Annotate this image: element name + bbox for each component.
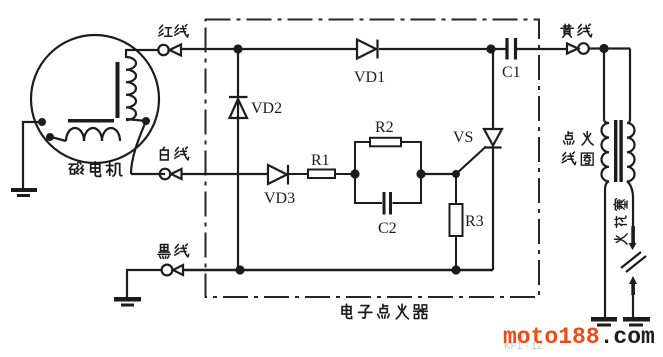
gate wire to VS — [456, 147, 486, 175]
wire node down to white line — [131, 121, 146, 174]
wire node to gate junction — [421, 173, 456, 175]
thyristor VS — [484, 49, 502, 270]
wire white line — [131, 173, 268, 175]
svg-text:C1: C1 — [502, 64, 521, 81]
node top wire / VD2 — [233, 44, 242, 53]
magneto trigger coil bar (horizontal) — [68, 119, 114, 123]
ground (spark plug) — [623, 317, 650, 327]
connector 黑线 — [162, 265, 183, 276]
svg-text:moto188: moto188 — [503, 324, 600, 350]
node R3 bottom — [451, 265, 460, 274]
node VD2 bottom — [235, 265, 244, 274]
ignition coil primary — [602, 49, 610, 318]
svg-text:R1: R1 — [311, 152, 330, 169]
spark plug lower electrode — [629, 276, 637, 295]
wire black line left to ground — [127, 270, 162, 297]
label 红线 — [159, 25, 188, 37]
capacitor C1 — [507, 38, 567, 60]
wire lower electrode to ground — [632, 295, 634, 317]
svg-text:.com: .com — [600, 324, 655, 350]
magneto trigger coil — [66, 128, 120, 141]
wire trigger coil left end — [51, 137, 66, 141]
wire red line to box — [181, 48, 356, 50]
wire magneto to ground — [23, 122, 42, 188]
node primary top — [599, 44, 608, 53]
resistor R2 — [355, 138, 421, 174]
wire yellow line to coil — [589, 47, 630, 49]
node R2C2 right — [416, 169, 425, 178]
ground (ignition coil) — [591, 317, 617, 327]
svg-text:R2: R2 — [375, 119, 394, 136]
wire VD1 to C1 — [379, 48, 507, 50]
node VS anode — [486, 44, 495, 53]
resistor R3 — [450, 174, 463, 270]
resistor R1 — [288, 170, 355, 179]
capacitor C2 — [355, 174, 421, 215]
node R2C2 left — [350, 169, 359, 178]
svg-text:C2: C2 — [378, 220, 397, 237]
diode VD1 — [357, 40, 378, 59]
ignition coil core — [614, 120, 623, 182]
label 白线 — [160, 147, 188, 160]
diode VD2 — [229, 97, 248, 118]
connector 红线 — [158, 45, 181, 56]
node gate / R3 — [452, 170, 460, 178]
label 黄线 — [561, 24, 592, 37]
magneto core bar (vertical) — [116, 62, 120, 118]
label 电子点火器 — [342, 304, 427, 319]
connector 黄线 — [567, 43, 589, 54]
label 黑线 — [158, 244, 189, 258]
spark gap mark — [621, 252, 646, 272]
svg-text:VD2: VD2 — [251, 100, 282, 117]
wire VD2 vertical — [237, 49, 239, 270]
diode VD3 — [268, 165, 288, 185]
node lighting coil bottom — [142, 117, 150, 125]
wire black line — [183, 269, 493, 271]
svg-text:VD3: VD3 — [264, 190, 295, 207]
wire coil top to red connector — [126, 50, 158, 58]
node trigger coil left — [46, 133, 54, 141]
svg-text:R3: R3 — [465, 213, 484, 230]
label 磁电机 — [69, 162, 122, 177]
node flywheel left — [38, 118, 46, 126]
svg-text:VS: VS — [453, 129, 473, 146]
label 火花塞 (rotated) — [614, 199, 627, 244]
connector 白线 — [160, 169, 182, 180]
label 点火线圈 — [562, 132, 593, 166]
magneto lighting coil — [126, 57, 136, 120]
igniter dashed enclosure — [206, 20, 540, 298]
spark plug upper electrode — [629, 226, 637, 250]
ground (magneto) — [11, 188, 37, 197]
ground (black line) — [114, 297, 141, 307]
wire coil bottom to node — [126, 119, 146, 121]
ignition coil secondary — [627, 49, 635, 227]
svg-text:VD1: VD1 — [354, 69, 385, 86]
magneto flywheel circle — [31, 35, 159, 163]
